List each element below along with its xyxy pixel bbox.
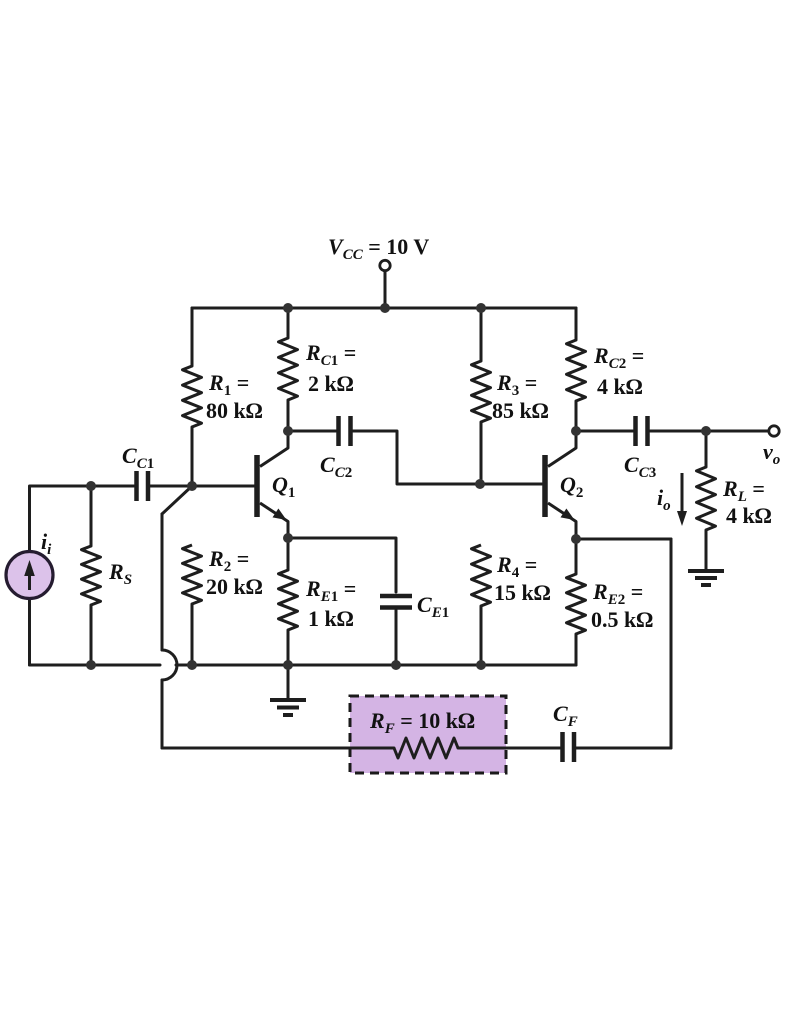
node: Q2 collector (571, 426, 581, 436)
wire: VCC stem (384, 271, 387, 308)
resistor RE2 (567, 574, 586, 634)
wire: R1 bottom to base node (191, 427, 194, 486)
node: Q2 emitter (571, 534, 581, 544)
capacitor CE1 (380, 596, 412, 608)
node: Q1 base (187, 481, 197, 491)
svg-text:15 kΩ: 15 kΩ (494, 580, 551, 605)
wire: R2 bottom to ground rail (191, 604, 194, 665)
node: RE1 bottom / ground (283, 660, 293, 670)
wire: CF right plate to right riser (576, 747, 671, 750)
node: R2 bottom (187, 660, 197, 670)
resistor RE1 (279, 570, 298, 630)
wire: input source top lead (30, 486, 135, 551)
wire: RC2 bottom to Q2 collector node (575, 401, 578, 431)
wire: RL bottom lead to ground (705, 530, 708, 570)
ground (below RL) (688, 571, 724, 585)
wire: top supply rail (192, 307, 576, 310)
node: CE1 bottom (391, 660, 401, 670)
wire: RC1 column top (287, 308, 290, 338)
wire: CC1 right lead to Q1 base node (150, 485, 192, 488)
resistor RC2 (567, 340, 586, 401)
wire: feedback tap from Q1 base node diagonal (162, 486, 192, 514)
resistor RC1 (279, 338, 298, 400)
resistor R4 (472, 545, 491, 606)
resistor R1 (183, 366, 202, 427)
node: RS top (86, 481, 96, 491)
wire: hop over ground rail (162, 650, 177, 680)
svg-text:4 kΩ: 4 kΩ (726, 503, 772, 528)
wire: RS top lead (90, 486, 93, 546)
wire: R3 column top (480, 308, 483, 361)
capacitor CC3 (636, 416, 648, 446)
wire: Q1 collector node to CC2 left plate (288, 430, 336, 433)
wire: RE1 bottom lead (287, 630, 290, 665)
wire: RS bottom lead (90, 605, 93, 665)
svg-text:2 kΩ: 2 kΩ (308, 371, 354, 396)
node: R4 bottom (476, 660, 486, 670)
node: Q1 collector (283, 426, 293, 436)
svg-text:4 kΩ: 4 kΩ (597, 374, 643, 399)
wire: RL top lead (705, 431, 708, 467)
capacitor CC2 (339, 416, 351, 446)
wire: feedback right riser (670, 539, 673, 748)
wire: CE1 bottom lead (395, 610, 398, 665)
wire: R3 bottom to Q2 base node (480, 422, 483, 484)
transistor Q1 (257, 431, 288, 538)
node: RS bottom (86, 660, 96, 670)
node: top rail / RC1 (283, 303, 293, 313)
svg-text:80 kΩ: 80 kΩ (206, 398, 263, 423)
ground (main, below RE1 rail) (270, 700, 306, 715)
wire: ground stem below rail (287, 665, 290, 699)
wire: feedback left vertical below hop (161, 680, 164, 748)
svg-text:0.5 kΩ: 0.5 kΩ (591, 607, 653, 632)
capacitor CF (563, 732, 575, 762)
wire: feedback bottom run to RF (162, 747, 394, 750)
wire: RE2 top lead from Q2 emitter node (575, 539, 578, 574)
wire: CC2 right plate to Q2 base (353, 431, 542, 484)
wire: RC1 bottom to collector node (287, 400, 290, 431)
wire: R4 bottom to ground rail (480, 606, 483, 665)
resistor RF (394, 738, 458, 758)
wire: Q1 base lead (192, 485, 255, 488)
terminal vo (769, 426, 779, 436)
resistor RS (82, 546, 101, 605)
current source ii (6, 552, 53, 599)
wire: RC2 column top (575, 308, 578, 340)
wire: R1 column top (191, 308, 194, 366)
wire: feedback left vertical above hop (161, 514, 164, 650)
wire: RE1 top lead from Q1 emitter node (287, 538, 290, 570)
svg-text:20 kΩ: 20 kΩ (206, 574, 263, 599)
wire: input source bottom lead (28, 599, 31, 665)
transistor Q2 (545, 431, 576, 539)
resistor RL (697, 467, 716, 530)
node: top rail / R3 (476, 303, 486, 313)
svg-text:85 kΩ: 85 kΩ (492, 398, 549, 423)
wire: bottom ground rail left of hop (30, 664, 161, 667)
node: top rail / VCC (380, 303, 390, 313)
node: output (701, 426, 711, 436)
node: Q2 base (475, 479, 485, 489)
feedback network box RF (350, 696, 506, 773)
wire: RF to CF left plate (458, 747, 560, 750)
terminal VCC (380, 260, 390, 270)
wire: RE2 bottom lead to ground rail (575, 634, 578, 665)
node: Q1 emitter (283, 533, 293, 543)
wire: output node to vo terminal (706, 430, 769, 433)
io arrow (677, 473, 687, 526)
wire: riser to Q2 emitter node (576, 538, 671, 541)
wire: CC3 right plate to output node (650, 430, 706, 433)
capacitor CC1 (137, 471, 149, 501)
wire: bottom ground rail right of hop (176, 664, 576, 667)
wire: Q2 collector node to CC3 left plate (576, 430, 633, 433)
wire: Q1 emitter node to CE1 top (288, 538, 396, 592)
svg-text:1 kΩ: 1 kΩ (308, 606, 354, 631)
resistor R3 (472, 361, 491, 422)
resistor R2 (183, 545, 202, 604)
